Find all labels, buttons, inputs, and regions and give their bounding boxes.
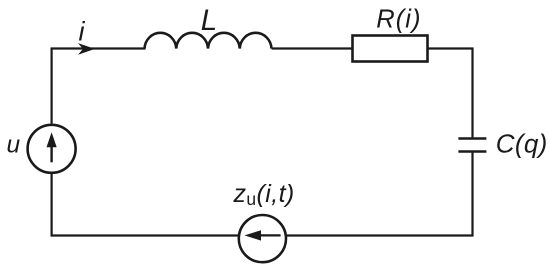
wire inductor to resistor [272,47,353,49]
svg-text:i: i [79,17,86,47]
voltage source U1 arrow (up) [47,132,57,162]
svg-text:zu(i,t): zu(i,t) [233,180,295,209]
svg-text:R(i): R(i) [376,6,421,34]
inductor L (4 humps) [145,33,272,49]
controlled source z_u arrow (left) [245,230,281,240]
svg-text:L: L [201,4,217,37]
wire left vertical (top part) and top-left corner [52,49,146,124]
controlled source z_u circle [239,215,286,262]
wire capacitor down to bottom-right corner and left to source [287,152,473,235]
voltage source U1 circle [28,125,76,173]
current arrow i on top wire [80,45,93,54]
svg-text:u: u [7,132,21,159]
capacitor C(q) plates [458,139,486,152]
svg-text:C(q): C(q) [496,129,548,159]
wire left vertical (bottom part) and bottom-left corner [52,174,239,236]
resistor R(i) [353,36,428,62]
wire resistor to top-right corner and down to capacitor [428,49,473,138]
